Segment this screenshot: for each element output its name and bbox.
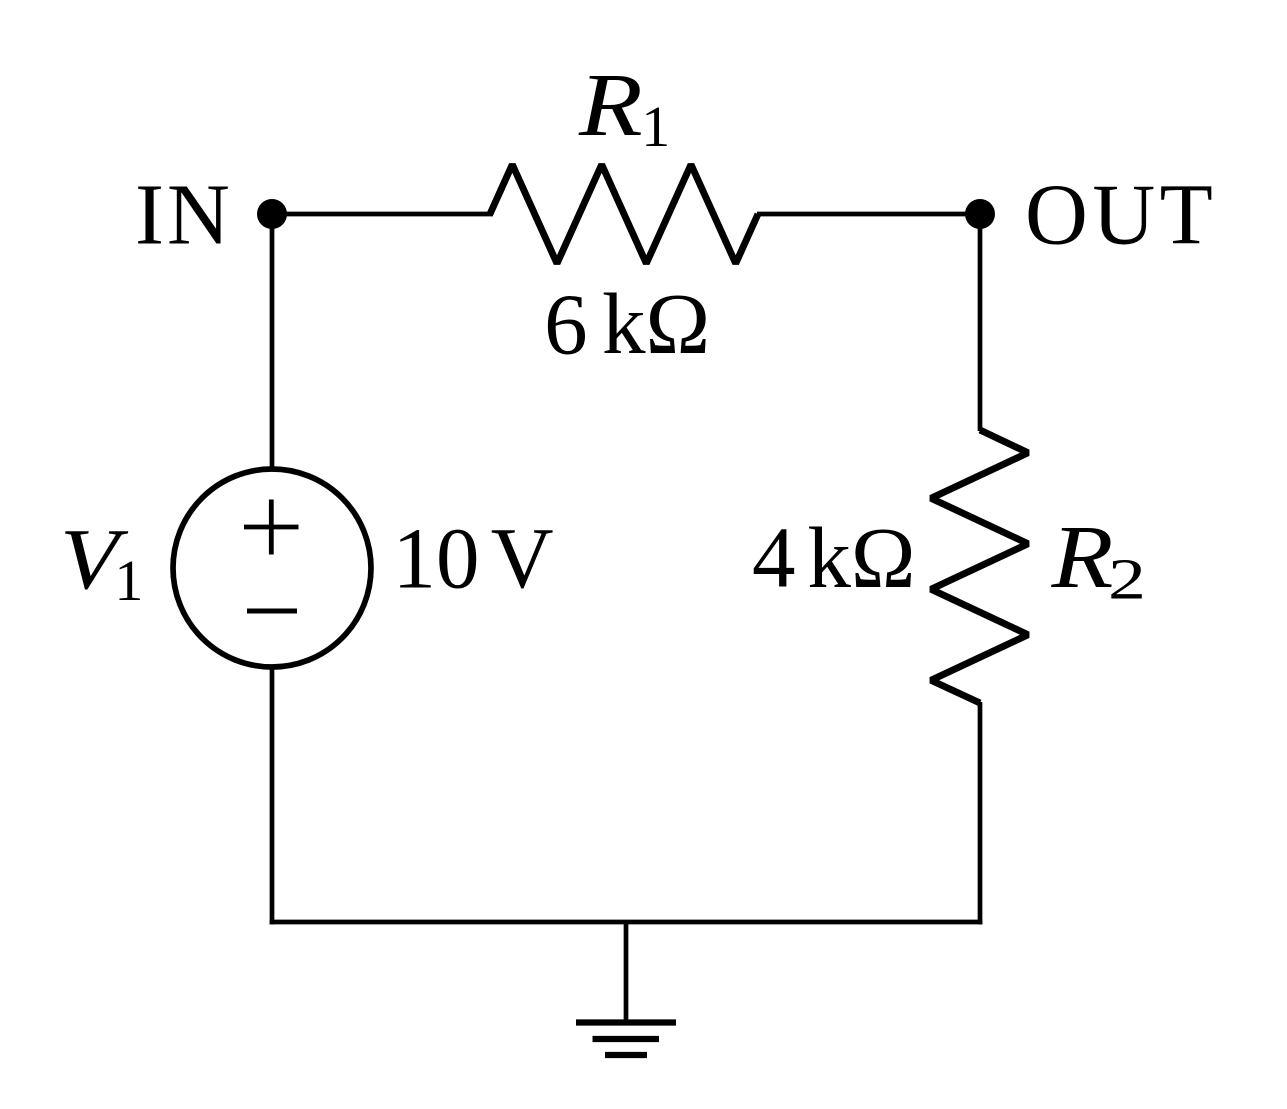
svg-text:kΩ: kΩ — [807, 509, 915, 606]
node IN dot — [257, 199, 287, 229]
node OUT dot — [965, 199, 995, 229]
svg-text:1: 1 — [641, 94, 670, 159]
svg-text:IN: IN — [135, 166, 233, 263]
svg-text:R: R — [1050, 508, 1113, 607]
wire V1 bottom down to rail — [270, 667, 275, 924]
ground stem — [624, 922, 629, 1022]
ground bar 2 — [593, 1036, 660, 1042]
svg-text:2: 2 — [1108, 547, 1146, 612]
svg-text:V: V — [491, 509, 554, 606]
resistor R2 — [931, 430, 1028, 703]
wire IN down to V1 top — [270, 214, 275, 469]
svg-text:4: 4 — [752, 509, 796, 606]
plus sign inside V1 — [244, 500, 299, 555]
wire R1 to OUT — [757, 212, 980, 217]
ground bar 3 — [605, 1052, 647, 1058]
ground bar 1 — [576, 1019, 676, 1025]
svg-text:OUT: OUT — [1025, 166, 1217, 263]
svg-text:6: 6 — [544, 276, 588, 373]
wire R2 bottom down to rail — [978, 702, 983, 924]
svg-text:kΩ: kΩ — [602, 275, 710, 372]
wire OUT down to R2 top — [978, 214, 983, 431]
wire IN to R1 — [272, 212, 493, 217]
svg-text:10: 10 — [393, 510, 480, 607]
voltage source V1 circle — [173, 469, 371, 667]
wire bottom rail — [270, 920, 983, 925]
resistor R1 — [490, 165, 758, 264]
svg-text:1: 1 — [114, 548, 143, 613]
svg-text:R: R — [578, 56, 643, 155]
minus sign inside V1 — [247, 609, 297, 614]
